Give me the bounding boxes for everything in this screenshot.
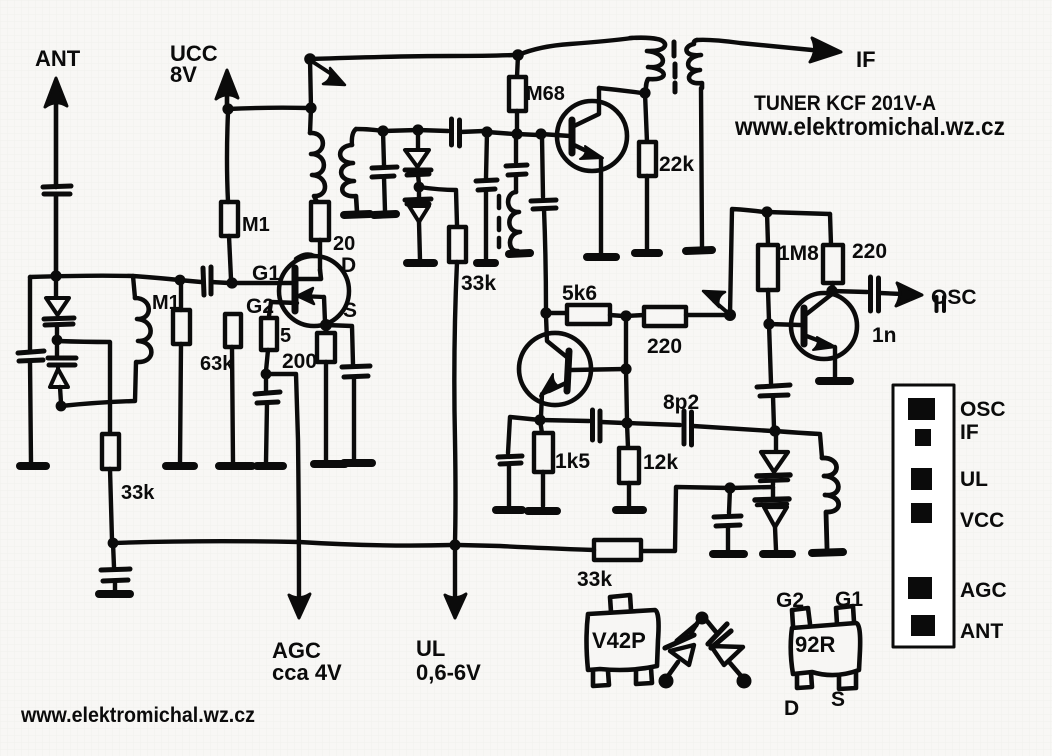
- node P (IF input bus junction): [511, 128, 522, 139]
- inductor M1 (antenna coil): [133, 276, 151, 362]
- ground (200): [314, 460, 345, 468]
- ground (T2 emitter): [819, 377, 850, 385]
- node K (cap junction): [377, 125, 388, 136]
- wire UCC to drain column: [228, 108, 308, 109]
- node C (below varactor D2): [56, 401, 67, 412]
- legend pin OSC: [908, 398, 935, 420]
- svg-text:VCC: VCC: [960, 509, 1004, 532]
- ground (L4): [812, 552, 843, 553]
- legend pin VCC: [911, 503, 932, 523]
- resistor 33k (osc bias, horizontal): [458, 540, 641, 560]
- svg-text:UL: UL: [960, 468, 988, 491]
- ground (R2): [166, 462, 194, 470]
- svg-text:cca 4V: cca 4V: [272, 660, 342, 685]
- svg-text:ANT: ANT: [35, 46, 81, 71]
- wire bias node to 33k: [643, 487, 730, 551]
- node Z (osc base node): [763, 318, 774, 329]
- wire node M to 33k: [419, 187, 457, 225]
- package V42P bottom pin left: [593, 671, 609, 686]
- wire node P to base bus: [517, 134, 538, 135]
- wire node U up and over to 1M8/220: [730, 209, 764, 315]
- node B (between varactors): [52, 335, 63, 346]
- node Q (base junction): [535, 128, 546, 139]
- resistor 22k: [639, 93, 656, 250]
- ground (C8): [477, 259, 495, 267]
- varactor D3: [405, 130, 431, 184]
- node I (top supply node): [304, 53, 316, 65]
- inductor L4 (osc coil): [822, 458, 839, 548]
- IF arrow: [810, 38, 841, 62]
- ground (T1 emitter): [587, 253, 616, 261]
- node X (emitter RC junction): [621, 417, 632, 428]
- resistor 220 (mixer to osc): [626, 307, 727, 326]
- node J (G2 bias / AGC node): [261, 369, 272, 380]
- varactor D4: [405, 187, 431, 260]
- svg-text:IF: IF: [856, 47, 876, 72]
- ground (1k5): [528, 507, 557, 515]
- package 92R body: [791, 623, 860, 675]
- wire node W down: [626, 369, 627, 420]
- wire tank top to coil: [775, 431, 822, 458]
- wire osc base: [769, 324, 800, 325]
- resistor 1M8: [758, 212, 778, 321]
- svg-text:AGC: AGC: [960, 579, 1007, 602]
- legend box: [893, 385, 954, 647]
- ground (below capacitor C2): [99, 590, 130, 598]
- power UCC arrow: [216, 70, 238, 108]
- ground (L3): [509, 253, 530, 254]
- svg-text:1n: 1n: [872, 324, 897, 347]
- svg-text:220: 220: [852, 240, 887, 263]
- package V42P body: [587, 610, 659, 670]
- package 92R top pin G1: [836, 606, 854, 624]
- node G (drain supply junction): [305, 102, 316, 113]
- node W (mixer base junction): [620, 363, 631, 374]
- svg-text:5: 5: [280, 325, 291, 347]
- svg-text:1M8: 1M8: [778, 242, 819, 265]
- ANT terminal arrow: [45, 78, 67, 187]
- ground (22k): [635, 249, 659, 257]
- svg-text:22k: 22k: [659, 153, 694, 176]
- node A (antenna bus junction): [50, 270, 61, 281]
- inductor L3 (tank coil, adjustable): [508, 192, 520, 251]
- capacitor 8p2: [627, 411, 772, 445]
- node V (1M8 top junction): [761, 206, 772, 217]
- package 92R top pin G2: [792, 608, 810, 626]
- capacitor C12 (series emitter to node X): [540, 410, 624, 441]
- resistor 200 (source): [317, 325, 335, 461]
- node L (varactor junction): [412, 124, 423, 135]
- tuning arrow (oscillator): [703, 291, 728, 313]
- resistor 33k (left, AGC feed): [102, 434, 119, 540]
- varactor pair icon right diode: [707, 621, 752, 689]
- node AC (osc varactor bias node): [730, 487, 773, 488]
- transistor T1 (IF amplifier, NPN): [557, 88, 627, 253]
- resistor 5k6: [546, 305, 623, 324]
- wire collector to node R: [599, 88, 642, 93]
- node S (source junction): [320, 319, 332, 331]
- resistor 5 (G2 bias): [261, 318, 277, 371]
- capacitor C5 (source bypass): [326, 325, 370, 460]
- capacitor C11 (emitter bypass): [498, 417, 540, 506]
- varactor D1 (upper, antenna tank): [44, 276, 74, 337]
- svg-text:S: S: [831, 688, 845, 711]
- svg-text:20: 20: [333, 233, 355, 255]
- capacitor C7 (series coupling): [452, 119, 485, 146]
- capacitor C13 (osc base to tank): [757, 324, 790, 428]
- wire secondary bottom to ground: [701, 88, 702, 247]
- svg-text:33k: 33k: [121, 482, 155, 504]
- node T (feedback node): [620, 310, 631, 321]
- capacitor C-ant (series in antenna lead): [43, 186, 71, 273]
- svg-text:UL: UL: [416, 636, 445, 661]
- wire node B to 33k column: [57, 341, 110, 432]
- svg-text:V42P: V42P: [592, 628, 646, 653]
- node U (osc feed junction): [724, 309, 736, 321]
- wire node C to coil M1 bottom: [61, 362, 136, 406]
- varactor pair icon left diode: [659, 622, 699, 689]
- UL arrow: [445, 594, 466, 618]
- ground (C5): [344, 459, 372, 467]
- svg-text:63k: 63k: [200, 353, 234, 375]
- resistor 12k: [619, 423, 639, 507]
- svg-text:G2: G2: [776, 589, 804, 612]
- ground (D6): [763, 550, 792, 558]
- svg-text:1k5: 1k5: [555, 450, 590, 473]
- ground (C11): [496, 506, 522, 514]
- svg-text:8V: 8V: [170, 62, 197, 87]
- transistor T3 (mixer, NPN): [519, 316, 591, 416]
- inductor L2 (bandpass coil): [340, 129, 357, 212]
- resistor 63k: [225, 314, 241, 463]
- package V42P bottom pin right: [636, 668, 652, 684]
- svg-text:8p2: 8p2: [663, 391, 699, 414]
- svg-text:33k: 33k: [461, 272, 496, 295]
- node F (UCC junction): [222, 103, 233, 114]
- svg-text:G1: G1: [835, 588, 863, 611]
- svg-text:IF: IF: [960, 421, 979, 444]
- node E (UL junction on bottom bus): [449, 539, 460, 550]
- transformer TR1 primary: [630, 38, 665, 91]
- node D (bottom bus left end): [108, 538, 119, 549]
- inductor L1 (drain coil): [310, 108, 325, 202]
- wire antenna bus horizontal: [30, 276, 201, 282]
- core dashes (L3): [497, 196, 502, 247]
- resistor 220 (osc collector): [823, 214, 843, 288]
- svg-text:www.elektromichal.wz.cz: www.elektromichal.wz.cz: [734, 113, 1005, 141]
- legend pin IF: [915, 429, 931, 446]
- ground (TR1 secondary): [686, 250, 712, 251]
- wire left branch down: [28, 277, 32, 350]
- svg-text:200: 200: [282, 350, 317, 373]
- svg-text:TUNER KCF 201V-A: TUNER KCF 201V-A: [754, 92, 936, 115]
- wire UL line below bus: [453, 545, 457, 596]
- svg-text:12k: 12k: [643, 451, 678, 474]
- wire bottom bus: [113, 541, 452, 545]
- varactor pair icon top node: [696, 612, 709, 625]
- capacitor C14 (osc bias): [714, 488, 741, 550]
- wire base T3: [571, 369, 626, 370]
- svg-text:OSC: OSC: [960, 398, 1006, 421]
- legend pin ANT: [911, 615, 935, 636]
- svg-text:0,6-6V: 0,6-6V: [416, 660, 481, 685]
- AGC arrow: [289, 594, 310, 618]
- capacitor C2 (below node D): [101, 543, 130, 590]
- node R (collector junction): [639, 87, 650, 98]
- svg-text:G2: G2: [246, 295, 274, 318]
- wire top bus to M68: [310, 55, 515, 59]
- tuning arrow (drain coil): [313, 62, 345, 85]
- varactor D2 (lower, antenna tank): [48, 340, 76, 403]
- node AA (osc collector node): [826, 285, 837, 296]
- svg-text:92R: 92R: [795, 632, 835, 657]
- svg-text:G1: G1: [252, 262, 280, 285]
- resistor M68: [509, 55, 526, 131]
- ground (left capacitor): [20, 462, 46, 470]
- node M (varactor bias node): [414, 182, 425, 193]
- transistor T2 (oscillator, NPN): [791, 293, 857, 377]
- wire base bus down (node T to base and C12): [624, 316, 628, 366]
- ground (C6): [374, 214, 396, 215]
- wire AGC line: [266, 374, 299, 597]
- wire node N to node O: [487, 132, 514, 134]
- legend pin AGC: [908, 577, 932, 599]
- resistor R2 (antenna bus to ground): [173, 280, 190, 463]
- capacitor C8 (to ground): [476, 132, 497, 260]
- ground (C4): [257, 462, 283, 470]
- package 92R bottom pin D: [797, 673, 812, 688]
- wire node G up to node I: [310, 59, 311, 108]
- resistor 1k5: [534, 420, 553, 506]
- resistor M1 (upper, from UCC): [221, 112, 238, 279]
- capacitor C9 (tank at node P): [506, 134, 527, 192]
- ground (D4): [407, 259, 434, 267]
- ground (C14): [713, 550, 744, 558]
- svg-text:ANT: ANT: [960, 620, 1003, 643]
- ground (L2): [344, 214, 370, 215]
- wire G1: [232, 281, 294, 285]
- capacitor C4 (G2 decoupling): [255, 374, 280, 462]
- svg-text:33k: 33k: [577, 568, 612, 591]
- node Y (mixer emitter node): [534, 414, 545, 425]
- package 92R bottom pin S: [839, 672, 856, 689]
- wire base: [541, 134, 570, 136]
- transformer TR1 core dashes: [674, 42, 675, 92]
- node R2-top junction: [175, 275, 186, 286]
- capacitor C10 (series to mixer): [531, 136, 556, 310]
- resistor 20 (drain): [311, 202, 329, 270]
- node N: [481, 126, 492, 137]
- varactor D6 (osc): [755, 487, 789, 550]
- wire interstage bus: [356, 129, 448, 131]
- node H (G1 bias junction): [226, 277, 237, 288]
- wire IF output: [697, 40, 812, 50]
- svg-text:D: D: [784, 697, 799, 720]
- wire node V to 220 top: [767, 212, 830, 214]
- capacitor C1 (left, to ground): [18, 351, 44, 463]
- svg-text:D: D: [341, 254, 356, 277]
- capacitor C6 (tank cap): [372, 131, 397, 211]
- svg-text:M68: M68: [526, 83, 565, 105]
- node S2 (mixer collector node): [540, 307, 551, 318]
- svg-text:S: S: [343, 299, 357, 322]
- svg-text:M1: M1: [242, 214, 270, 236]
- package V42P top pin: [610, 595, 631, 612]
- ground (63k): [219, 462, 252, 470]
- svg-text:5k6: 5k6: [562, 282, 597, 305]
- ground (12k): [616, 506, 643, 514]
- transformer TR1 secondary: [686, 40, 702, 88]
- svg-text:www.elektromichal.wz.cz: www.elektromichal.wz.cz: [20, 704, 255, 727]
- OSC arrow: [896, 283, 922, 306]
- resistor 33k (varactor bias / UL): [449, 227, 466, 542]
- svg-text:220: 220: [647, 335, 682, 358]
- wire top bus to transformer: [518, 38, 632, 55]
- dual-gate MOSFET T1: [269, 255, 349, 326]
- capacitor 1n (OSC output): [832, 277, 902, 311]
- node AD (bias cap junction): [724, 482, 735, 493]
- varactor D5 (osc): [757, 431, 790, 485]
- node AB (osc tank top node): [769, 425, 780, 436]
- capacitor glyph overlapping OSC label: [937, 297, 945, 311]
- node O (M68 top junction): [512, 49, 524, 61]
- legend pin UL: [911, 468, 932, 490]
- capacitor C3 (coupling to G1): [203, 267, 229, 295]
